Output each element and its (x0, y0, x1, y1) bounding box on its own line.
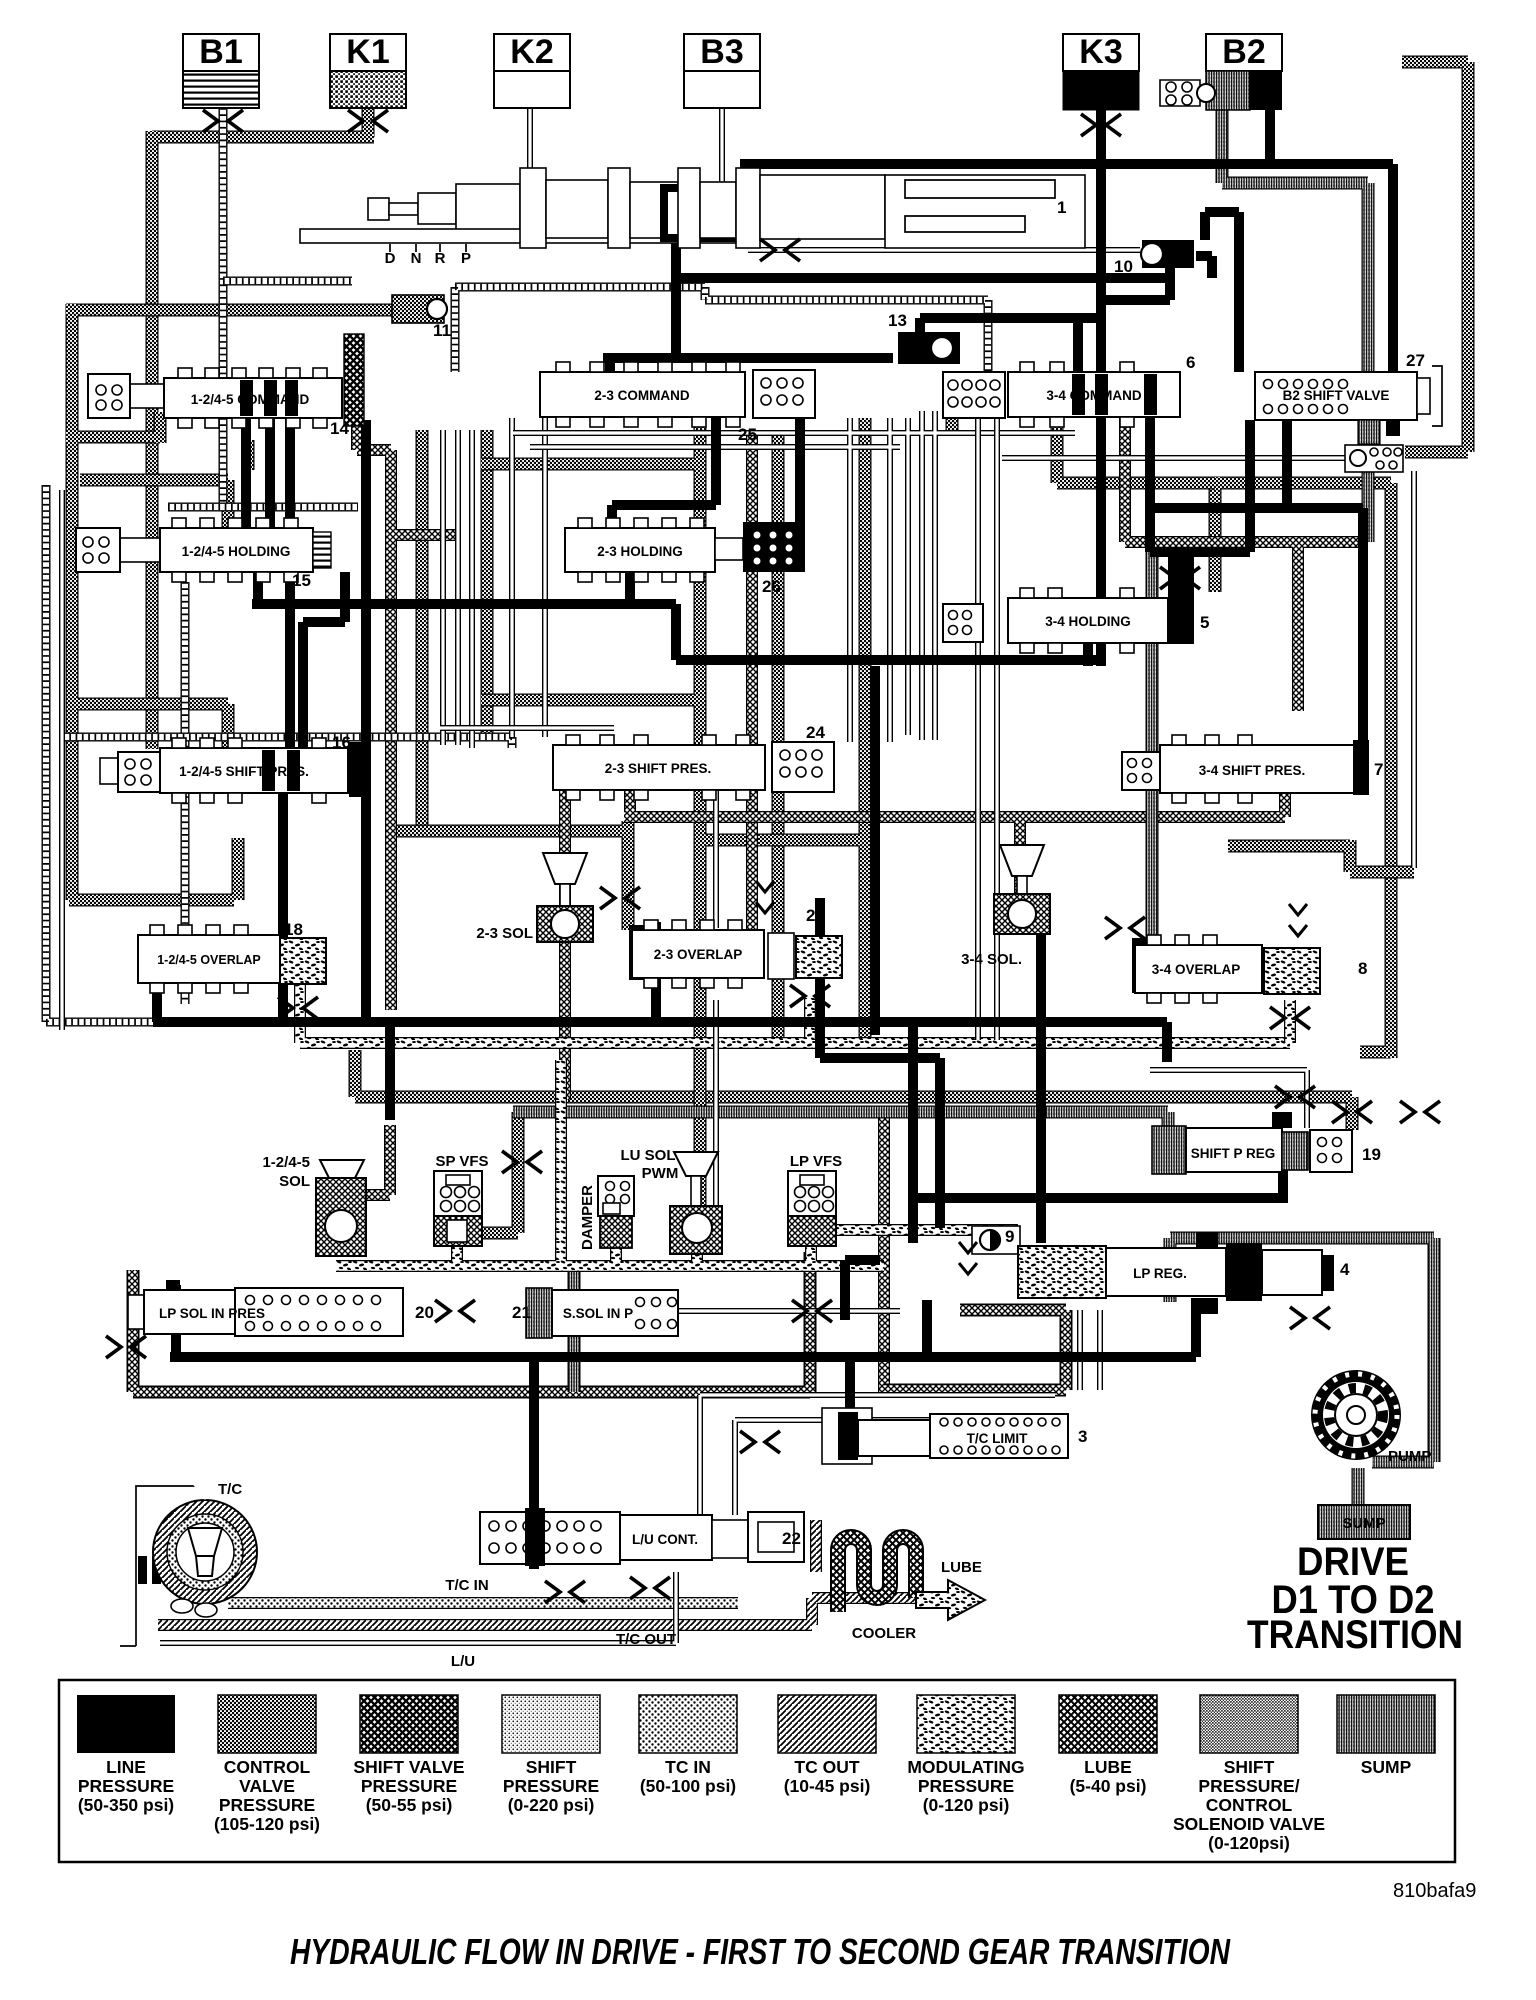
wire line pressure K3 down (1096, 110, 1106, 666)
svg-text:(0-120 psi): (0-120 psi) (923, 1795, 1010, 1815)
svg-text:T/C OUT: T/C OUT (616, 1631, 676, 1648)
legend control valve pressure (218, 1695, 316, 1753)
svg-text:LINE: LINE (106, 1757, 146, 1777)
valve 2-3 COMMAND (540, 362, 815, 444)
valve 1-2/4-5 HOLDING (76, 518, 331, 590)
valve LP SOL IN PRES 20 (128, 1280, 434, 1336)
cut mark T/C in line (545, 1581, 585, 1603)
svg-text:LUBE: LUBE (941, 1559, 982, 1576)
svg-text:7: 7 (1374, 760, 1383, 779)
valve 2-3 SHIFT PRES 24 (553, 723, 834, 800)
check valve 10 (1114, 240, 1194, 276)
wire tc-out from converter to cooler (158, 1520, 928, 1625)
legend line pressure (77, 1695, 175, 1753)
wire sump pump to sump box (513, 1112, 1358, 1505)
clutch B1 (183, 33, 259, 108)
svg-text:8: 8 (1358, 959, 1367, 978)
solenoid 3-4 SOL (961, 845, 1050, 968)
valve B2 SHIFT VALVE 27 (1255, 351, 1442, 444)
cut mark 3-4 overlap (1270, 1007, 1310, 1029)
wire thin double right long vertical (1411, 471, 1417, 868)
wire sump bottom left frame (133, 1252, 810, 1392)
wire line pressure check13 feed (603, 318, 1101, 372)
wire line pressure check10 to B2 (676, 110, 1393, 372)
legend lube (1059, 1695, 1157, 1753)
svg-text:SUMP: SUMP (1361, 1757, 1412, 1777)
cut mark control line (1275, 1086, 1315, 1108)
wire modulating right to 3-4 overlap (1284, 1000, 1296, 1043)
manual valve 1 (300, 168, 1085, 267)
svg-text:2-3 SHIFT PRES.: 2-3 SHIFT PRES. (605, 761, 712, 776)
cut mark S.SOL line (792, 1300, 832, 1322)
wire control pressure from K1 down left side (152, 106, 374, 749)
svg-text:PRESSURE: PRESSURE (78, 1776, 174, 1796)
svg-text:21: 21 (512, 1303, 531, 1322)
wire tc-in from converter to L/U control (228, 1597, 738, 1609)
solenoid 2-3 SOL (476, 853, 593, 942)
legend sump (1337, 1695, 1435, 1753)
wire sump frame around T/C limit (884, 1310, 1066, 1390)
wire thin double center verticals (62, 418, 545, 1030)
cut mark K1 line (348, 110, 388, 132)
wire line pressure bottom trunk (170, 1285, 1196, 1569)
flow arrows check 9 (959, 1242, 977, 1274)
legend frame (59, 1680, 1455, 1862)
valve 1-2/4-5 SHIFT PRES 16 (100, 733, 364, 803)
svg-text:PRESSURE: PRESSURE (503, 1776, 599, 1796)
wire line pressure overlap row (153, 922, 1167, 1198)
svg-text:T/C IN: T/C IN (445, 1577, 488, 1594)
wire control loop around valve 14 pilot (66, 304, 392, 900)
svg-text:22: 22 (782, 1529, 801, 1548)
check valve 9 (972, 1226, 1020, 1254)
wire control solenoid feed row (0, 0, 7, 7)
svg-text:3-4 COMMAND: 3-4 COMMAND (1046, 388, 1142, 403)
solenoid LP VFS (788, 1153, 842, 1246)
cut mark K3 line (1081, 114, 1121, 136)
svg-text:2: 2 (806, 906, 815, 925)
svg-text:T/C LIMIT: T/C LIMIT (967, 1431, 1028, 1446)
svg-text:DAMPER: DAMPER (579, 1185, 596, 1250)
damper (579, 1176, 634, 1250)
valve 2-3 OVERLAP 2 (629, 906, 842, 988)
svg-text:N: N (411, 250, 422, 267)
wire ladder left tall (46, 485, 153, 1022)
svg-text:K2: K2 (510, 33, 553, 71)
svg-text:LP VFS: LP VFS (790, 1153, 842, 1170)
svg-text:L/U: L/U (451, 1653, 475, 1670)
valve S.SOL IN P 21 (512, 1288, 678, 1338)
svg-text:PRESSURE: PRESSURE (361, 1776, 457, 1796)
cut mark 3-4 holding (1160, 567, 1200, 589)
check valve near B2 shift valve (1345, 445, 1403, 472)
legend shift pressure control solenoid valve (1200, 1695, 1298, 1753)
cut mark right frame line (1400, 1101, 1440, 1123)
svg-text:T/C: T/C (218, 1481, 242, 1498)
clutch B2 (1206, 33, 1282, 110)
svg-text:3-4 SOL.: 3-4 SOL. (961, 951, 1022, 968)
wire modulating check9 to LP REG (336, 1060, 1018, 1266)
svg-text:3-4 HOLDING: 3-4 HOLDING (1045, 614, 1131, 629)
svg-text:5: 5 (1200, 613, 1209, 632)
wire thin double K2 down (527, 108, 533, 172)
svg-text:TC OUT: TC OUT (794, 1757, 859, 1777)
svg-text:(5-40 psi): (5-40 psi) (1070, 1776, 1147, 1796)
svg-text:2-3 SOL: 2-3 SOL (476, 925, 533, 942)
legend tc in (639, 1695, 737, 1753)
cut mark B1 line (203, 110, 243, 132)
svg-text:B2: B2 (1222, 33, 1265, 71)
wire thin double B3 down (719, 108, 725, 205)
legend shift pressure (502, 1695, 600, 1753)
svg-text:PRESSURE: PRESSURE (918, 1776, 1014, 1796)
wire sump B2 shift valve down to 3-4 overlap (1152, 424, 1368, 945)
cut mark LP REG outlet (1290, 1307, 1330, 1329)
svg-text:CONTROL: CONTROL (1206, 1795, 1293, 1815)
wire control around valve 7 (1228, 840, 1414, 872)
svg-text:COOLER: COOLER (852, 1625, 916, 1642)
solenoid SP VFS (434, 1153, 489, 1246)
svg-text:26: 26 (762, 577, 781, 596)
svg-text:(50-100 psi): (50-100 psi) (640, 1776, 736, 1796)
svg-text:TRANSITION: TRANSITION (1247, 1613, 1463, 1657)
svg-text:13: 13 (888, 311, 907, 330)
svg-text:3-4 SHIFT PRES.: 3-4 SHIFT PRES. (1199, 763, 1306, 778)
wire ladder horizontal above 1-2/4-5 shift pres (63, 737, 512, 748)
wire line pressure 3-4 command down (1101, 417, 1250, 598)
svg-text:SOL: SOL (279, 1173, 310, 1190)
svg-text:LUBE: LUBE (1084, 1757, 1132, 1777)
svg-text:MODULATING: MODULATING (907, 1757, 1024, 1777)
clutch K2 (494, 33, 570, 108)
svg-text:1-2/4-5 HOLDING: 1-2/4-5 HOLDING (182, 544, 291, 559)
svg-text:PUMP: PUMP (1388, 1448, 1431, 1465)
wire line pressure LP REG bottom links (845, 1260, 927, 1357)
sump box (1318, 1505, 1410, 1539)
svg-text:PWM: PWM (642, 1165, 679, 1182)
valve LP REG 4 (1018, 1232, 1350, 1314)
svg-text:LP REG.: LP REG. (1133, 1266, 1187, 1281)
svg-text:1-2/4-5: 1-2/4-5 (262, 1154, 310, 1171)
valve 1-2/4-5 OVERLAP 18 (138, 920, 326, 993)
wire thin double manual valve to check 10 (748, 247, 1140, 253)
wire ladder above 2-3 command (455, 287, 988, 372)
wire ladder horizontal above command (223, 277, 352, 286)
svg-text:PRESSURE: PRESSURE (219, 1795, 315, 1815)
check valve 11 (392, 295, 451, 340)
wire line pressure mid vertical to shift p reg (820, 666, 1041, 1243)
svg-text:16: 16 (332, 733, 351, 752)
svg-text:4: 4 (1340, 1260, 1350, 1279)
svg-text:9: 9 (1005, 1227, 1014, 1246)
cut mark LP SOL line (435, 1300, 475, 1322)
svg-text:(0-120psi): (0-120psi) (1208, 1833, 1290, 1853)
flow arrows 2-3 overlap (756, 881, 774, 913)
svg-text:(10-45 psi): (10-45 psi) (784, 1776, 871, 1796)
wire control into shift p reg (355, 1050, 1352, 1233)
svg-text:HYDRAULIC FLOW IN DRIVE - FIRS: HYDRAULIC FLOW IN DRIVE - FIRST TO SECON… (290, 1931, 1231, 1972)
legend modulating pressure (917, 1695, 1015, 1753)
wire ladder B1 down to valve 14 (219, 108, 228, 507)
svg-text:20: 20 (415, 1303, 434, 1322)
svg-text:PRESSURE/: PRESSURE/ (1198, 1776, 1299, 1796)
svg-text:(50-350 psi): (50-350 psi) (78, 1795, 174, 1815)
check valve 13 (888, 311, 960, 364)
svg-text:2-3 COMMAND: 2-3 COMMAND (594, 388, 690, 403)
svg-text:SOLENOID VALVE: SOLENOID VALVE (1173, 1814, 1325, 1834)
wire shift-valve-pressure diagonal lines (565, 432, 752, 1100)
svg-text:LP SOL IN PRES: LP SOL IN PRES (159, 1306, 265, 1321)
svg-text:B3: B3 (700, 33, 743, 71)
svg-text:TC IN: TC IN (665, 1757, 711, 1777)
svg-text:L/U CONT.: L/U CONT. (632, 1532, 698, 1547)
legend shift valve pressure (360, 1695, 458, 1753)
svg-text:(105-120 psi): (105-120 psi) (214, 1814, 320, 1834)
legend tc out (778, 1695, 876, 1753)
cut mark 1-2/4-5 overlap (278, 997, 318, 1019)
wire line pressure B2 shift valve to valve 7 (1150, 420, 1363, 741)
cut mark manual valve line (760, 239, 800, 261)
wire control vertical x360 to overlap row (422, 430, 778, 1040)
svg-text:(50-55 psi): (50-55 psi) (366, 1795, 453, 1815)
svg-text:(0-220 psi): (0-220 psi) (508, 1795, 595, 1815)
svg-text:R: R (435, 250, 446, 267)
clutch B3 (684, 33, 760, 108)
flow arrows 3-4 overlap (1289, 904, 1307, 936)
check valve at B2 (1160, 80, 1215, 106)
solenoid 1-2/4-5 SOL (262, 1154, 366, 1256)
cut mark T/C limit feed (740, 1431, 780, 1453)
svg-text:SHIFT VALVE: SHIFT VALVE (353, 1757, 464, 1777)
wire thin double overlap to shift p reg (1150, 1070, 1307, 1128)
svg-text:SHIFT: SHIFT (526, 1757, 577, 1777)
svg-text:18: 18 (284, 920, 303, 939)
svg-text:SP VFS: SP VFS (435, 1153, 488, 1170)
svg-text:K1: K1 (346, 33, 389, 71)
svg-text:1-2/4-5 COMMAND: 1-2/4-5 COMMAND (191, 392, 310, 407)
torque converter T/C (120, 1481, 257, 1646)
pump (1311, 1370, 1431, 1465)
svg-text:19: 19 (1362, 1145, 1381, 1164)
svg-text:D: D (385, 250, 396, 267)
wire lube cooler coil (838, 1537, 916, 1612)
cut mark SP VFS riser (502, 1151, 542, 1173)
valve L/U CONT 22 (480, 1508, 804, 1566)
svg-text:6: 6 (1186, 353, 1195, 372)
svg-text:2-3 HOLDING: 2-3 HOLDING (597, 544, 683, 559)
cut mark L/U line (630, 1577, 670, 1599)
cut mark 3-4 overlap feed (1105, 917, 1145, 939)
svg-text:SHIFT: SHIFT (1224, 1757, 1275, 1777)
wire control right tall loop (1215, 62, 1468, 1058)
wire thin double L/U (160, 1310, 1100, 1643)
wire modulating long horizontal (300, 985, 1290, 1043)
valve 3-4 COMMAND (943, 353, 1195, 427)
svg-text:3: 3 (1078, 1427, 1087, 1446)
valve 3-4 SHIFT PRES 7 (1122, 735, 1383, 803)
svg-text:15: 15 (292, 571, 311, 590)
svg-text:1: 1 (1057, 198, 1066, 217)
valve 1-2/4-5 COMMAND (88, 334, 364, 438)
wire line pressure shift p reg bottom (913, 1170, 1288, 1243)
valve 3-4 OVERLAP 8 (1132, 935, 1367, 1003)
svg-text:25: 25 (738, 425, 757, 444)
clutch K3 (1063, 33, 1139, 110)
wire control 2-3 area verticals (390, 410, 1215, 1230)
svg-text:1-2/4-5 OVERLAP: 1-2/4-5 OVERLAP (157, 953, 261, 967)
svg-text:810bafa9: 810bafa9 (1393, 1880, 1476, 1902)
wire line pressure holding trunk (246, 414, 1106, 1022)
clutch K1 (330, 33, 406, 108)
svg-text:B2 SHIFT VALVE: B2 SHIFT VALVE (1283, 388, 1390, 403)
svg-text:S.SOL IN P: S.SOL IN P (563, 1306, 633, 1321)
svg-text:27: 27 (1406, 351, 1425, 370)
svg-text:K3: K3 (1079, 33, 1122, 71)
wire ladder between holding valves (168, 503, 358, 512)
wire lube arrow to LUBE (916, 1580, 985, 1620)
svg-text:10: 10 (1114, 257, 1133, 276)
wire sump line from B2 (1222, 110, 1368, 394)
svg-text:24: 24 (806, 723, 825, 742)
valve 2-3 HOLDING (565, 518, 805, 596)
solenoid LU SOL PWM (621, 1147, 723, 1254)
svg-text:B1: B1 (199, 33, 242, 71)
svg-text:P: P (461, 250, 471, 267)
valve SHIFT P REG 19 (1152, 1112, 1381, 1174)
svg-text:CONTROL: CONTROL (224, 1757, 311, 1777)
svg-text:LU SOL: LU SOL (621, 1147, 676, 1164)
cut mark shift p reg feed (1332, 1101, 1372, 1123)
cut mark 2-3 overlap (790, 985, 830, 1007)
cut mark 2-3 overlap feed (600, 887, 640, 909)
valve 3-4 HOLDING (943, 549, 1209, 653)
svg-text:SUMP: SUMP (1342, 1515, 1385, 1532)
valve T/C LIMIT 3 (822, 1408, 1087, 1464)
svg-text:VALVE: VALVE (239, 1776, 295, 1796)
svg-text:SHIFT P REG: SHIFT P REG (1191, 1146, 1276, 1161)
wire sump frame around LP REG and pump (1170, 1238, 1434, 1462)
svg-text:11: 11 (433, 321, 451, 340)
cut mark left frame (106, 1336, 146, 1358)
svg-text:3-4 OVERLAP: 3-4 OVERLAP (1152, 962, 1241, 977)
wire line pressure 2-3 command down (612, 418, 800, 604)
svg-text:2-3 OVERLAP: 2-3 OVERLAP (654, 947, 743, 962)
